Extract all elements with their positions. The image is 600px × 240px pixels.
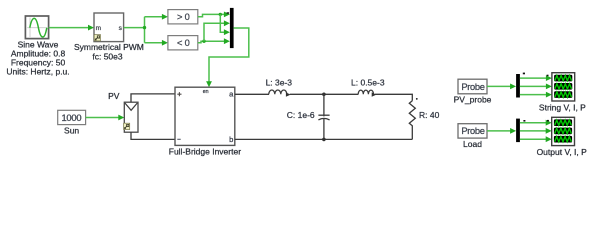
- wire lt to mux input4: [198, 38, 230, 44]
- Full-Bridge Inverter block: [175, 87, 235, 145]
- svg-text:Full-Bridge Inverter: Full-Bridge Inverter: [169, 147, 241, 157]
- junction dot on input1 row: [219, 13, 222, 16]
- svg-text:L: 0.5e-3: L: 0.5e-3: [351, 78, 385, 88]
- wire mux to inverter enable: [206, 28, 249, 87]
- Probe block PV_probe: [458, 79, 487, 94]
- junction dot cap bottom: [322, 138, 326, 142]
- wire sine to PWM: [49, 25, 94, 31]
- wire branch to compare gt: [145, 14, 168, 20]
- mux block: [230, 8, 234, 48]
- svg-text:PV: PV: [108, 91, 120, 101]
- Symmetrical PWM block: [94, 13, 124, 42]
- svg-text:Probe: Probe: [461, 82, 484, 92]
- svg-text:PV_probe: PV_probe: [454, 95, 492, 105]
- wires demux2 to scope2: [520, 120, 552, 142]
- wire PWM to branch: [124, 27, 145, 29]
- svg-text:String V, I, P: String V, I, P: [539, 102, 586, 112]
- svg-text:en: en: [203, 89, 209, 95]
- wire probe2 to demux2: [487, 128, 516, 134]
- junction dot cap top: [322, 93, 326, 97]
- wire PV plus to inverter: [131, 94, 175, 102]
- svg-text:R: 40: R: 40: [419, 110, 440, 120]
- svg-text:Probe: Probe: [461, 126, 484, 136]
- demux1 block: [516, 74, 520, 98]
- annotation dot near resistor: [416, 98, 418, 100]
- wire top rail to resistor: [375, 94, 412, 101]
- sine wave source block: [25, 16, 48, 39]
- PV panel block: [124, 102, 138, 132]
- demux2 annotation dash: [523, 120, 525, 122]
- svg-text:Sun: Sun: [64, 125, 79, 135]
- compare block gt zero: [168, 10, 198, 24]
- wire probe1 to demux1: [487, 84, 516, 90]
- capacitor C: [318, 94, 329, 139]
- svg-text:C: 1e-6: C: 1e-6: [287, 110, 315, 120]
- inductor L1 coil: [269, 90, 291, 97]
- scope block Output: [552, 117, 575, 145]
- mux annotation dash: [227, 12, 230, 13]
- label Symmetrical PWM: [74, 42, 144, 61]
- library link badge on PWM: [94, 35, 100, 41]
- library link badge on PV: [124, 123, 130, 129]
- Probe block Load: [458, 124, 487, 138]
- wire branch vertical: [144, 17, 146, 43]
- wires demux1 to scope1: [520, 75, 552, 97]
- wire inverter a to top rail: [235, 93, 269, 95]
- svg-text:Load: Load: [463, 139, 482, 149]
- svg-text:fc: 50e3: fc: 50e3: [92, 51, 123, 61]
- svg-text:Output V, I, P: Output V, I, P: [537, 147, 588, 157]
- junction dot branch: [143, 26, 146, 29]
- wire branch to compare lt: [145, 40, 168, 46]
- scope2 annotation dash: [547, 120, 549, 122]
- demux2 block: [516, 119, 520, 143]
- svg-text:1000: 1000: [61, 112, 81, 123]
- compare block lt zero: [168, 36, 198, 50]
- resistor R zigzag: [409, 101, 415, 140]
- svg-text:b: b: [229, 135, 233, 144]
- svg-text:Units: Hertz, p.u.: Units: Hertz, p.u.: [6, 67, 69, 77]
- constant block Sun 1000: [58, 110, 86, 124]
- label Sine Wave parameters: [6, 39, 69, 76]
- wire PV minus to inverter: [131, 132, 175, 139]
- wire gt to mux input1: [198, 12, 230, 18]
- svg-text:m: m: [96, 25, 101, 32]
- scope1 annotation dash: [547, 75, 549, 77]
- junction dot on input4 row: [202, 40, 205, 43]
- svg-text:< 0: < 0: [177, 38, 190, 48]
- wire top rail between inductors: [290, 93, 359, 95]
- demux1 annotation dash: [523, 73, 525, 75]
- inductor L2 coil: [358, 90, 376, 97]
- svg-text:> 0: > 0: [177, 12, 190, 22]
- svg-text:L: 3e-3: L: 3e-3: [266, 78, 293, 88]
- scope block String: [552, 73, 575, 101]
- wire up to mux input2: [204, 20, 230, 41]
- wire bottom rail: [235, 138, 412, 140]
- wire Sun to PV: [86, 115, 125, 121]
- wire branch down to mux input3: [220, 14, 230, 35]
